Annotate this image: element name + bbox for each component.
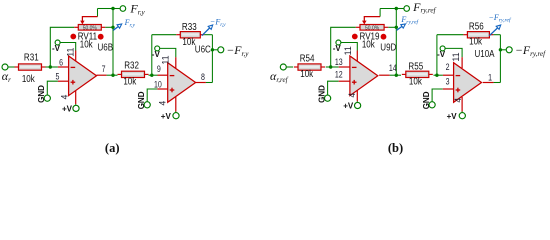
- potentiometer RV19 value: [362, 39, 375, 50]
- wire node B up to R3: [436, 35, 438, 75]
- resistor R31 label: [24, 52, 39, 63]
- wire output 2 to feedback vertical: [206, 82, 213, 84]
- resistor R55 left stub: [402, 73, 406, 75]
- pot right stub: [384, 26, 388, 28]
- output terminal -F_r,y: [218, 47, 224, 53]
- resistor R31 left stub: [15, 66, 19, 68]
- wire R2 to node B: [434, 74, 443, 76]
- potentiometer RV19 body: [360, 25, 384, 32]
- svg-text:GND: GND: [317, 85, 326, 103]
- svg-text:6: 6: [59, 58, 63, 68]
- svg-text:4: 4: [453, 98, 463, 103]
- pin number 7: [102, 64, 106, 74]
- resistor R56 left stub: [463, 34, 467, 36]
- pin number 1: [488, 73, 492, 83]
- pin number 14: [389, 63, 397, 73]
- wire node A up to potentiometer: [50, 27, 74, 67]
- terminal F_ry,ref: [404, 6, 410, 12]
- svg-text:4: 4: [60, 95, 70, 100]
- resistor R56 body: [467, 32, 489, 38]
- wire -V to pin 11 stage 1: [60, 43, 76, 51]
- svg-text:11: 11: [65, 48, 75, 57]
- pin number 8: [201, 72, 205, 82]
- resistor R33 body: [180, 32, 200, 38]
- resistor R54 value: [300, 68, 313, 79]
- resistor R56 right stub: [489, 34, 493, 36]
- power pin 11 stage 2: [461, 57, 463, 68]
- resistor R54 left stub: [294, 66, 298, 68]
- wire pot to feedback node: [388, 26, 396, 28]
- svg-text:11: 11: [343, 46, 353, 55]
- resistor R54 body: [298, 64, 321, 70]
- pin 10 wire (op-amp 2 non-inverting input): [157, 88, 167, 90]
- junction output 1 / feedback: [395, 74, 398, 77]
- svg-text:Fr,y: Fr,y: [129, 2, 145, 17]
- wire pin 4 to +V stage 1: [75, 104, 77, 105]
- svg-text:10k: 10k: [22, 73, 35, 84]
- op-amp U6B minus symbol: [71, 66, 76, 68]
- svg-text:10k: 10k: [182, 36, 195, 47]
- wire input to R: [8, 66, 15, 68]
- wire pin 4 to +V stage 2: [175, 112, 177, 113]
- -V power terminal stage 2: [440, 46, 445, 51]
- resistor R55 body: [406, 71, 429, 77]
- op-amp U10A body: [454, 63, 482, 103]
- svg-text:−Fry,ref: −Fry,ref: [515, 43, 546, 58]
- pin number 5: [56, 72, 60, 82]
- svg-text:-V: -V: [437, 50, 446, 59]
- wire GND to plus input stage 1: [47, 81, 58, 95]
- potentiometer RV11 body: [78, 25, 101, 32]
- svg-text:2: 2: [446, 62, 450, 72]
- power pin 11 stage 2: [175, 57, 177, 68]
- svg-text:U6C: U6C: [195, 44, 212, 55]
- op-amp reference U6B: [97, 42, 113, 53]
- svg-text:10k: 10k: [469, 36, 482, 47]
- pin 14 wire (op-amp 1 output): [379, 74, 390, 76]
- wire input to R: [286, 66, 293, 68]
- input terminal alpha_r: [2, 64, 8, 70]
- svg-text:+V: +V: [161, 112, 172, 121]
- op-amp U9D minus symbol: [352, 66, 357, 68]
- voltage probe F_ry,ref: [397, 24, 406, 30]
- wire to output terminal: [500, 49, 505, 51]
- svg-text:(a): (a): [105, 141, 120, 155]
- svg-text:+V: +V: [62, 104, 73, 113]
- wire top node to terminal: [396, 8, 404, 10]
- svg-text:5: 5: [56, 72, 60, 82]
- svg-text:U9D: U9D: [380, 42, 397, 53]
- svg-text:R33: R33: [182, 21, 197, 32]
- resistor R31 right stub: [42, 66, 46, 68]
- power pin 11 stage 1: [75, 51, 77, 62]
- pin number 2: [446, 62, 450, 72]
- wire wiper jog to top node: [98, 8, 114, 10]
- +V power terminal stage 2: [173, 113, 179, 119]
- svg-text:11: 11: [160, 55, 170, 64]
- terminal F_r,y: [120, 6, 126, 12]
- resistor R55 value: [409, 76, 422, 87]
- svg-text:1: 1: [488, 73, 492, 83]
- op-amp reference U6C: [195, 44, 212, 55]
- ground terminal stage 1: [325, 95, 331, 101]
- svg-text:12: 12: [335, 70, 343, 80]
- wire GND to plus input stage 2: [147, 89, 157, 102]
- pot left stub: [356, 26, 360, 28]
- resistor R56 label: [469, 21, 484, 32]
- resistor R32 left stub: [118, 73, 122, 75]
- power pin 4 stage 1: [75, 91, 77, 105]
- voltage probe F_r,y: [113, 24, 122, 30]
- wire to R3 left: [437, 34, 464, 36]
- +V power terminal stage 2: [459, 113, 465, 119]
- svg-text:-V: -V: [152, 50, 161, 59]
- svg-text:R55: R55: [408, 61, 423, 72]
- wire GND to plus input stage 1: [328, 81, 339, 95]
- wire -V to pin 11 stage 2: [445, 48, 462, 57]
- svg-text:GND: GND: [137, 91, 146, 109]
- resistor R54 label: [300, 53, 315, 64]
- svg-text:13: 13: [335, 57, 343, 67]
- input terminal alpha_r,ref: [280, 64, 286, 70]
- svg-text:+V: +V: [343, 102, 354, 111]
- junction node B: [150, 74, 153, 77]
- svg-text:4: 4: [158, 101, 168, 106]
- junction top node: [111, 7, 114, 10]
- wire R2 to node B: [149, 74, 158, 76]
- svg-text:-V: -V: [333, 44, 342, 53]
- pin 6 wire (op-amp 1 inverting input): [58, 66, 69, 68]
- svg-text:R54: R54: [300, 53, 315, 64]
- feedback vertical stage 2: [211, 35, 213, 83]
- svg-text:Fry,ref: Fry,ref: [412, 0, 436, 15]
- op-amp U6C plus symbol: [170, 88, 175, 93]
- resistor R31 value: [22, 73, 35, 84]
- svg-text:GND: GND: [37, 85, 46, 103]
- resistor R56 value: [469, 36, 482, 47]
- junction node A: [49, 65, 52, 68]
- svg-text:αr,ref: αr,ref: [270, 69, 289, 84]
- wire pin 4 to +V stage 1: [356, 101, 358, 102]
- +V power terminal stage 1: [355, 102, 361, 108]
- wire to R3 left: [152, 34, 177, 36]
- potentiometer RV11 wiper arrow: [80, 9, 97, 25]
- svg-text:10: 10: [154, 80, 162, 90]
- pin number 12: [335, 70, 343, 80]
- output terminal -F_ry,ref: [506, 47, 512, 53]
- potentiometer RV11 value: [80, 39, 93, 50]
- svg-text:10k: 10k: [409, 76, 422, 87]
- resistor R54 right stub: [321, 66, 325, 68]
- pot right stub: [101, 26, 105, 28]
- junction output terminal node: [499, 48, 502, 51]
- svg-text:4: 4: [347, 93, 357, 98]
- pin number 6: [59, 58, 63, 68]
- -V power terminal stage 1: [55, 40, 60, 45]
- feedback wire vertical stage 1: [395, 9, 397, 76]
- svg-text:9: 9: [157, 64, 161, 74]
- power pin 11 stage 1: [356, 51, 358, 62]
- junction node A: [329, 65, 332, 68]
- resistor R32 body: [122, 71, 145, 77]
- junction top node: [395, 7, 398, 10]
- wire output 1 to R2: [390, 74, 401, 76]
- pot left stub: [74, 26, 78, 28]
- svg-text:10k: 10k: [123, 76, 136, 87]
- pin 9 wire (op-amp 2 inverting input): [158, 74, 168, 76]
- power pin 4 stage 2: [175, 97, 177, 112]
- power pin 4 stage 2: [461, 97, 463, 112]
- pin 13 wire (op-amp 1 inverting input): [339, 66, 350, 68]
- feedback wire vertical stage 1: [112, 9, 114, 76]
- wire output 1 to R2: [107, 74, 118, 76]
- wire -V to pin 11 stage 2: [160, 48, 176, 57]
- wire pin 4 to +V stage 2: [461, 112, 463, 113]
- pin number 13: [335, 57, 343, 67]
- wire node B up to R3: [151, 35, 153, 75]
- svg-text:-V: -V: [52, 44, 61, 53]
- op-amp U6B plus symbol: [71, 80, 76, 85]
- wire top node to terminal: [113, 8, 120, 10]
- junction pot right node: [111, 26, 114, 29]
- op-amp U6C body: [168, 63, 196, 103]
- wire R to node A: [46, 66, 58, 68]
- svg-text:Fry,ref: Fry,ref: [400, 15, 419, 26]
- wire to output terminal: [212, 49, 217, 51]
- svg-text:+V: +V: [447, 112, 458, 121]
- resistor R33 left stub: [176, 34, 180, 36]
- resistor R55 right stub: [429, 73, 433, 75]
- op-amp U9D plus symbol: [352, 80, 357, 85]
- svg-text:8: 8: [201, 72, 205, 82]
- potentiometer RV19 label: [352, 31, 387, 42]
- resistor R32 right stub: [145, 73, 149, 75]
- ground terminal stage 2: [429, 102, 435, 108]
- resistor R33 label: [182, 21, 197, 32]
- svg-text:R32: R32: [124, 60, 139, 71]
- resistor R32 value: [123, 76, 136, 87]
- svg-text:10k: 10k: [80, 39, 93, 50]
- wire GND to plus input stage 2: [432, 89, 443, 102]
- svg-text:Fr,y: Fr,y: [124, 18, 136, 29]
- ground terminal stage 2: [144, 102, 150, 108]
- +V power terminal stage 1: [73, 105, 79, 111]
- pin 5 wire (op-amp 1 non-inverting input): [58, 80, 69, 82]
- voltage probe -F_r,y: [202, 25, 213, 36]
- -V power terminal stage 1: [336, 40, 341, 45]
- resistor R33 value: [182, 36, 195, 47]
- svg-text:U10A: U10A: [474, 48, 494, 59]
- potentiometer RV11 label: [70, 31, 103, 42]
- svg-text:αr: αr: [2, 69, 11, 84]
- pin number 3: [446, 77, 450, 87]
- junction node B: [435, 74, 438, 77]
- svg-text:14: 14: [389, 63, 397, 73]
- op-amp reference U9D: [380, 42, 397, 53]
- svg-text:R31: R31: [24, 52, 39, 63]
- svg-text:10k: 10k: [362, 39, 375, 50]
- pin 2 wire (op-amp 2 inverting input): [443, 74, 454, 76]
- svg-text:R56: R56: [469, 21, 484, 32]
- op-amp reference U10A: [474, 48, 494, 59]
- wire output 2 to feedback vertical: [494, 82, 501, 84]
- wire pot to feedback node: [105, 26, 113, 28]
- junction pot right node: [395, 26, 398, 29]
- wire wiper jog to top node: [380, 8, 396, 10]
- -V power terminal stage 2: [155, 46, 160, 51]
- wire -V to pin 11 stage 1: [341, 43, 357, 51]
- resistor R32 label: [124, 60, 139, 71]
- pin 7 wire (op-amp 1 output): [97, 74, 107, 76]
- resistor R31 body: [19, 64, 42, 70]
- op-amp U10A plus symbol: [456, 88, 461, 93]
- pin 1 wire (op-amp 2 output): [483, 82, 494, 84]
- voltage probe -F_ry,ref: [489, 25, 500, 36]
- svg-text:10k: 10k: [300, 68, 313, 79]
- pin number 9: [157, 64, 161, 74]
- junction output 1 / feedback: [111, 74, 114, 77]
- svg-text:(b): (b): [388, 141, 403, 155]
- power pin 4 stage 1: [356, 91, 358, 102]
- wire node A up to potentiometer: [331, 27, 356, 67]
- pin 8 wire (op-amp 2 output): [196, 82, 206, 84]
- svg-text:U6B: U6B: [97, 42, 113, 53]
- wire R3 right to elbow: [493, 34, 500, 36]
- svg-text:GND: GND: [422, 91, 431, 109]
- potentiometer RV19 wiper arrow: [362, 9, 380, 25]
- junction output terminal node: [211, 48, 214, 51]
- svg-text:3: 3: [446, 77, 450, 87]
- wire R3 right to elbow: [204, 34, 212, 36]
- op-amp U10A minus symbol: [456, 75, 461, 77]
- ground terminal stage 1: [44, 95, 50, 101]
- pin 12 wire (op-amp 1 non-inverting input): [339, 80, 350, 82]
- op-amp U6B body: [69, 56, 97, 96]
- resistor R55 label: [408, 61, 423, 72]
- wire R to node A: [326, 66, 339, 68]
- feedback vertical stage 2: [499, 35, 501, 83]
- svg-text:7: 7: [102, 64, 106, 74]
- pin number 10: [154, 80, 162, 90]
- svg-text:−Fry,ref: −Fry,ref: [488, 13, 511, 24]
- op-amp U6C minus symbol: [170, 75, 175, 77]
- svg-text:−Fr,y: −Fr,y: [226, 43, 249, 58]
- resistor R33 right stub: [200, 34, 204, 36]
- svg-text:11: 11: [451, 52, 461, 61]
- op-amp U9D body: [350, 56, 378, 96]
- pin 3 wire (op-amp 2 non-inverting input): [443, 88, 454, 90]
